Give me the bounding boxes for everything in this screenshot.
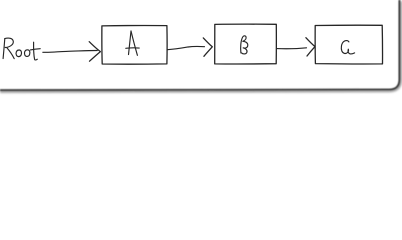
box C bbox=[315, 25, 382, 64]
arrowhead into C bbox=[306, 38, 315, 56]
arrowhead into A bbox=[89, 42, 100, 62]
frame shadow (right + bottom, rounded bottom-right corner) bbox=[0, 1, 401, 91]
label C bbox=[341, 41, 354, 54]
label A bbox=[126, 31, 139, 55]
box A bbox=[102, 26, 167, 65]
box B bbox=[215, 24, 277, 64]
wire Root to A bbox=[43, 50, 98, 52]
wire A to B bbox=[167, 46, 204, 49]
label B bbox=[241, 36, 248, 54]
wire B to C bbox=[277, 47, 307, 50]
node Root label bbox=[3, 38, 40, 60]
arrowhead into B bbox=[203, 38, 212, 56]
